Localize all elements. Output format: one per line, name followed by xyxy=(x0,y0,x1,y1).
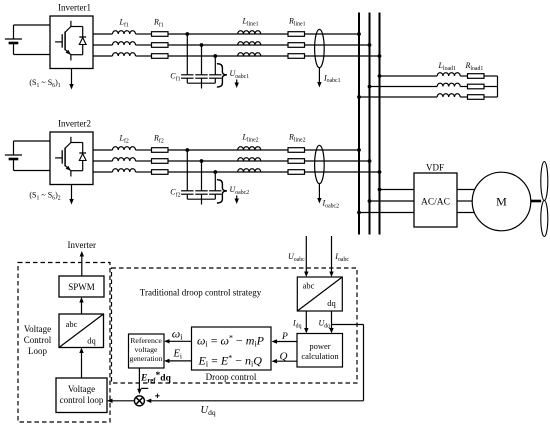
current sensor ellipse 2 xyxy=(315,145,325,183)
transistor Q2 (IGBT) xyxy=(55,137,71,177)
node cap tap a1 xyxy=(185,32,189,36)
gate signal arrow inverter 1 xyxy=(71,69,73,86)
svg-text:SPWM: SPWM xyxy=(68,282,95,292)
node inverter2 phase a to bus1 xyxy=(357,148,361,152)
wire DC link 1 bottom xyxy=(14,54,51,56)
summing junction xyxy=(134,396,144,406)
inductor Lf1 xyxy=(113,31,136,56)
wire phase a inverter1 xyxy=(93,33,113,35)
arrow Ioabc1 xyxy=(318,68,320,84)
wire DC link 2 top xyxy=(14,140,51,142)
svg-text:power: power xyxy=(309,341,330,351)
svg-text:voltage: voltage xyxy=(135,345,158,354)
arrow SPWM to Inverter xyxy=(81,255,83,276)
block Reference voltage generation xyxy=(129,334,165,368)
propeller blade upper xyxy=(541,162,548,201)
node inverter1 phase a to bus1 xyxy=(357,32,361,36)
svg-text:Control: Control xyxy=(24,335,52,345)
node inverter1 phase c to bus3 xyxy=(378,54,382,58)
wire Idq xyxy=(305,311,307,330)
node cap tap b1 xyxy=(200,43,204,47)
arrow VCL box to abc/dq xyxy=(81,351,83,378)
dashed box Traditional droop control strategy xyxy=(112,268,358,383)
svg-text:Droop control: Droop control xyxy=(206,372,257,382)
diode D1 xyxy=(79,27,86,55)
arrow omega_i to reference xyxy=(168,340,192,342)
svg-text:Voltage: Voltage xyxy=(24,324,51,334)
transistor Q1 (IGBT) xyxy=(55,21,71,61)
battery (DC source) 2 xyxy=(5,141,22,171)
resistor Rf1 xyxy=(152,32,169,59)
node cap tap a2 xyxy=(185,148,189,152)
resistor Rline2 xyxy=(288,148,305,175)
propeller shaft xyxy=(531,200,541,203)
inductor Lf2 xyxy=(113,147,136,172)
inductor Lline1 xyxy=(238,31,261,56)
arrow Q xyxy=(275,360,297,362)
node VDF a on bus3 xyxy=(378,188,382,192)
gate signal arrow inverter 2 xyxy=(71,185,73,201)
block SPWM xyxy=(59,276,104,297)
wire IGBT-diode bottom connector 1 xyxy=(71,54,83,56)
wire phase b inverter1 xyxy=(93,44,113,46)
svg-text:VDF: VDF xyxy=(426,163,444,173)
brace Uoabc2 xyxy=(217,180,227,203)
arrow Ioabc2 xyxy=(318,184,320,200)
node load c on bus1 xyxy=(357,95,361,99)
wire Ioabc measurement xyxy=(331,236,333,274)
motor M xyxy=(472,172,531,231)
dashed box Voltage Control Loop xyxy=(18,263,110,423)
wire phase a inverter2 xyxy=(93,149,113,151)
block droop equations xyxy=(192,327,272,370)
wire converter-motor a xyxy=(457,189,475,191)
arrow junction to Voltage control loop xyxy=(111,400,135,402)
wire load right connector xyxy=(497,76,499,97)
wire phase c inverter2 xyxy=(93,171,113,173)
bus bar 2 xyxy=(369,13,371,235)
inductor Lline2 xyxy=(238,147,261,172)
wire VDF phase a xyxy=(380,189,415,191)
svg-text:calculation: calculation xyxy=(301,351,339,361)
node inverter1 phase b to bus2 xyxy=(368,43,372,47)
svg-text:generation: generation xyxy=(130,354,163,363)
wire DC link 1 top xyxy=(14,24,51,26)
wire load phase b xyxy=(370,86,438,88)
wire DC link 2 bottom xyxy=(14,170,51,172)
bus bar 3 xyxy=(379,13,381,235)
arrow P xyxy=(275,341,297,343)
wire load phase a xyxy=(380,75,438,77)
inverter U2 box xyxy=(50,132,93,185)
propeller blade lower xyxy=(541,201,548,237)
capacitor Cf2 xyxy=(181,150,221,205)
block power calculation xyxy=(297,334,343,368)
diode D2 xyxy=(79,143,86,171)
svg-text:M: M xyxy=(496,195,507,209)
wire IGBT-diode bottom connector 2 xyxy=(71,170,83,172)
svg-text:abc: abc xyxy=(303,281,315,291)
converter AC/AC box xyxy=(414,173,457,227)
svg-text:Traditional droop control stra: Traditional droop control strategy xyxy=(140,287,262,297)
block abc/dq left xyxy=(59,314,104,348)
wire phase b inverter2 xyxy=(93,160,113,162)
wire phase c inverter1 xyxy=(93,55,113,57)
arrow Uoabc1 xyxy=(236,80,238,85)
svg-text:Reference: Reference xyxy=(130,336,162,345)
wire Udq feedback xyxy=(332,324,364,326)
node VDF b on bus2 xyxy=(368,199,372,203)
node load a on bus3 xyxy=(378,74,382,78)
svg-text:control loop: control loop xyxy=(60,395,104,405)
wire Eref dq down xyxy=(138,368,140,391)
arrow abc/dq to SPWM xyxy=(81,301,83,315)
wire converter-motor c xyxy=(457,212,475,214)
bus bar 1 xyxy=(358,13,360,235)
svg-text:Inverter2: Inverter2 xyxy=(58,119,91,129)
svg-text:abc: abc xyxy=(66,319,78,329)
svg-text:dq: dq xyxy=(327,298,336,308)
wire Uoabc measurement xyxy=(305,236,307,274)
label plus xyxy=(155,395,159,397)
node VDF c on bus1 xyxy=(357,211,361,215)
current sensor ellipse 1 xyxy=(315,29,325,67)
svg-text:P: P xyxy=(281,332,288,342)
resistor Rf2 xyxy=(152,148,169,175)
arrow Uoabc2 xyxy=(236,196,238,201)
wire load phase c xyxy=(359,96,437,98)
inverter U1 box xyxy=(50,16,93,69)
wire converter-motor b xyxy=(457,200,472,202)
brace Uoabc1 xyxy=(217,64,227,87)
battery (DC source) 1 xyxy=(5,25,22,55)
svg-text:dq: dq xyxy=(87,336,96,346)
svg-text:Q: Q xyxy=(280,351,288,363)
svg-text:AC/AC: AC/AC xyxy=(421,198,450,208)
block Voltage control loop xyxy=(56,378,107,413)
label minus xyxy=(141,387,148,389)
svg-text:Voltage: Voltage xyxy=(68,384,95,394)
arrow E_i to reference xyxy=(168,360,192,362)
svg-text:Inverter: Inverter xyxy=(68,240,96,250)
inductor Lload1 xyxy=(437,73,460,97)
node inverter2 phase c to bus3 xyxy=(378,170,382,174)
node load b on bus2 xyxy=(368,85,372,89)
wire IGBT-diode top connector 1 xyxy=(71,26,83,28)
capacitor Cf1 xyxy=(181,34,221,89)
node cap tap c2 xyxy=(213,170,217,174)
svg-text:Loop: Loop xyxy=(28,346,47,356)
node cap tap c1 xyxy=(213,54,217,58)
wire VDF phase b xyxy=(370,200,415,202)
svg-text:Inverter1: Inverter1 xyxy=(58,3,91,13)
node inverter2 phase b to bus2 xyxy=(368,159,372,163)
wire Udq to power calc xyxy=(331,311,333,330)
resistor Rline1 xyxy=(288,32,305,59)
node cap tap b2 xyxy=(200,159,204,163)
block abc/dq right xyxy=(297,277,342,311)
wire IGBT-diode top connector 2 xyxy=(71,142,83,144)
wire VDF phase c xyxy=(359,212,414,214)
resistor Rload1 xyxy=(468,74,485,100)
